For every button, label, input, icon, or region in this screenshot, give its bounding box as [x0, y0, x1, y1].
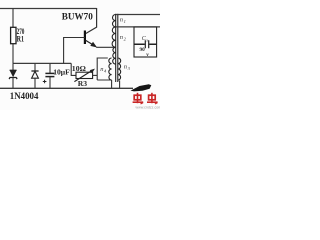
label 1N4004 [10, 92, 39, 102]
capacitor C1 10uF electrolytic [43, 63, 70, 88]
svg-text:n: n [120, 34, 123, 41]
diode D1 (left, 1N4004) [9, 63, 17, 88]
logo swoosh [131, 84, 152, 91]
wire top rail [0, 8, 97, 10]
svg-text:www.cndzz.com: www.cndzz.com [136, 105, 161, 109]
transistor Q1 BUW70 [62, 12, 97, 47]
resistor R1 [11, 9, 25, 64]
svg-text:BUW70: BUW70 [62, 12, 93, 22]
svg-text:1: 1 [124, 19, 126, 24]
wire right rail upper [116, 14, 160, 16]
wire n4 bottom to rail [111, 80, 113, 88]
svg-text:1N4004: 1N4004 [10, 92, 39, 102]
svg-text:4: 4 [104, 69, 107, 74]
svg-text:10Ω: 10Ω [72, 64, 86, 73]
logo text [133, 93, 162, 110]
wire right rail lower [116, 26, 160, 28]
lamp box with capacitor Cx [134, 27, 157, 58]
winding n1 [113, 15, 126, 27]
winding n4 [100, 58, 111, 80]
wire feedback loop to winding n4 [97, 58, 111, 80]
svg-text:x: x [145, 37, 148, 42]
svg-text:R1: R1 [17, 35, 24, 44]
diode D2 (right, 1N4004) [31, 63, 38, 88]
svg-text:n: n [100, 66, 103, 73]
svg-text:3: 3 [128, 66, 131, 71]
wire bottom rail [0, 87, 133, 89]
winding n2 [112, 27, 127, 64]
wire base to mid rail [64, 38, 85, 64]
potentiometer R3 10ohm [71, 63, 97, 87]
svg-text:n: n [120, 17, 123, 24]
wire emitter to winding [96, 46, 115, 48]
wire collector drop from top rail [86, 8, 97, 34]
svg-text:n: n [124, 63, 127, 70]
winding n3 [118, 58, 131, 80]
svg-text:2: 2 [124, 36, 127, 41]
svg-text:10μF: 10μF [53, 67, 70, 76]
transformer core [116, 14, 118, 82]
svg-text:90: 90 [140, 47, 146, 53]
wire mid rail [13, 62, 71, 64]
svg-text:R3: R3 [78, 79, 87, 88]
wire n3 bottom to rail [119, 81, 121, 89]
